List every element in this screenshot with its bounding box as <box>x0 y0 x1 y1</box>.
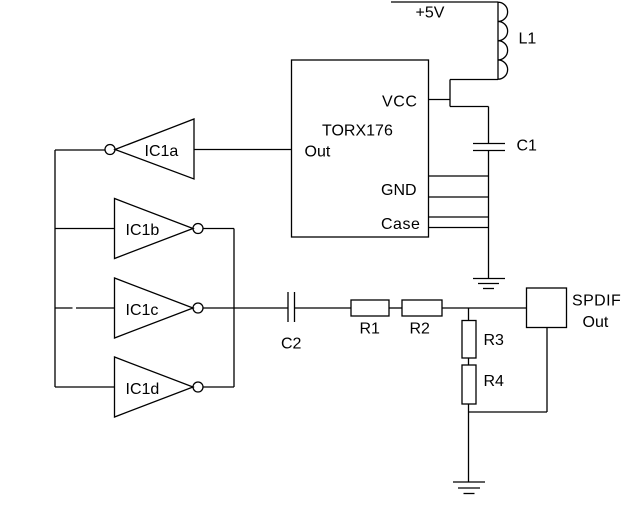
svg-text:SPDIF: SPDIF <box>572 293 621 310</box>
svg-text:C2: C2 <box>281 336 302 353</box>
wire R1 to R2 <box>389 307 402 309</box>
wire VCC pin <box>429 99 451 101</box>
svg-text:Out: Out <box>583 314 609 331</box>
capacitor C2 <box>288 292 295 322</box>
ground (below R4) <box>453 482 485 494</box>
connector SPDIF Out <box>527 288 567 328</box>
svg-text:IC1d: IC1d <box>126 381 160 398</box>
wire Case pin 1 <box>429 216 489 218</box>
svg-text:R1: R1 <box>360 321 381 338</box>
svg-text:IC1c: IC1c <box>126 302 159 319</box>
wire IC1b input <box>55 228 115 230</box>
svg-text:R2: R2 <box>410 321 431 338</box>
svg-text:Case: Case <box>381 216 420 233</box>
wire SPDIF return vertical <box>546 328 548 413</box>
wire R4 to ground <box>468 404 470 482</box>
svg-text:GND: GND <box>381 182 417 199</box>
op-amp inverter IC1c <box>115 278 204 338</box>
svg-text:R3: R3 <box>484 332 505 349</box>
wire IC1d output to right bus <box>203 386 234 388</box>
wire GND pin 1 <box>429 175 489 177</box>
wire IC1a bubble to left bus <box>55 149 105 151</box>
wire TORX Out pin to IC1a input <box>194 149 292 151</box>
svg-text:VCC: VCC <box>382 94 418 111</box>
IC U1 TORX176 receiver box <box>292 60 429 237</box>
resistor R1 <box>351 300 389 316</box>
wire GND pin 2 <box>429 196 489 198</box>
resistor R4 <box>462 365 476 404</box>
svg-text:+5V: +5V <box>416 5 445 22</box>
resistor R2 <box>402 300 442 316</box>
wire IC1c input (right part) <box>76 307 115 309</box>
capacitor C1 <box>473 144 505 151</box>
ground (below C1) <box>473 279 505 289</box>
wire left bus <box>54 150 56 387</box>
svg-text:IC1b: IC1b <box>126 222 160 239</box>
svg-text:L1: L1 <box>519 31 537 48</box>
wire IC1d input <box>55 386 115 388</box>
inductor L1 <box>498 2 508 80</box>
op-amp inverter IC1d <box>115 357 204 417</box>
wire junction down to R3 <box>468 308 470 321</box>
resistor R3 <box>462 321 476 359</box>
+5V supply rail <box>391 1 498 3</box>
op-amp inverter IC1a <box>105 119 194 179</box>
svg-text:TORX176: TORX176 <box>322 123 393 140</box>
wire IC1c input (left part) <box>55 307 73 309</box>
wire IC1b output to right bus <box>203 228 234 230</box>
wire R2 to SPDIF connector <box>442 307 527 309</box>
svg-text:Out: Out <box>305 144 331 161</box>
wire right bus <box>233 229 235 388</box>
wire C2 to R1 <box>295 307 352 309</box>
svg-text:R4: R4 <box>484 373 505 390</box>
wire Case pin 2 <box>429 227 489 229</box>
wire branch to SPDIF return <box>469 411 548 413</box>
wire inductor bottom to VCC branch <box>450 79 498 81</box>
wire C1 bottom to ground <box>488 151 490 279</box>
svg-text:C1: C1 <box>517 138 538 155</box>
wire vertical VCC branch <box>449 80 451 107</box>
op-amp inverter IC1b <box>115 199 204 259</box>
wire to C1 top horizontal <box>450 106 489 108</box>
wire down to C1 <box>488 107 490 144</box>
svg-text:IC1a: IC1a <box>145 143 179 160</box>
wire IC1c output to C2 <box>203 307 288 309</box>
wire R3 to R4 <box>468 358 470 365</box>
